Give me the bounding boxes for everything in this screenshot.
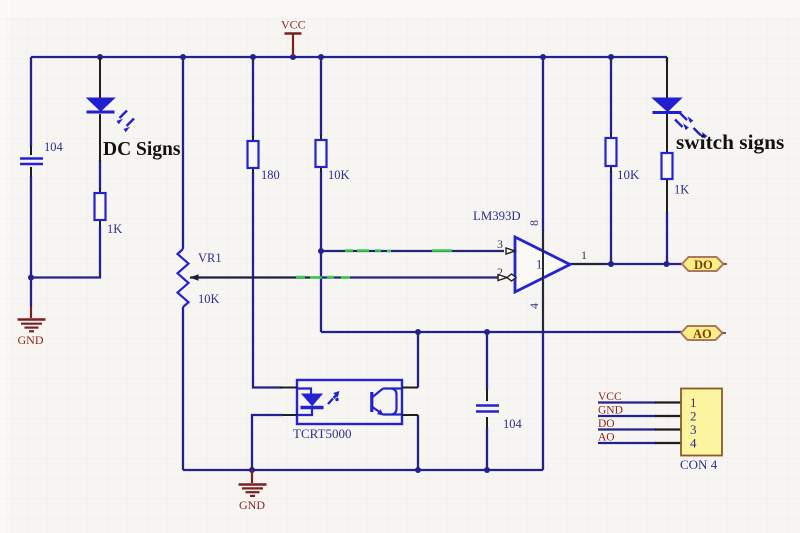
wire: VR1 wiper to comparator pin2 (190, 276, 504, 278)
svg-text:10K: 10K (198, 292, 220, 306)
wire: connector VCC stub (598, 401, 656, 403)
resistor R3 180 stubs (252, 136, 254, 173)
wire: right 104 cap column (486, 332, 488, 470)
wire: TCRT collector up to AO rail (417, 332, 419, 388)
LED D1 (DC) pins (99, 57, 101, 162)
svg-text:10K: 10K (617, 167, 640, 182)
ground symbol GND (bottom) (239, 470, 267, 496)
capacitor C2 104 (right) plates (476, 406, 499, 412)
junction at ground rail / 104 cap (484, 467, 490, 473)
wire: left 1K bottom to ground rail (31, 226, 100, 278)
svg-text:4: 4 (690, 436, 697, 451)
wire: right 10K pull-up column (610, 57, 612, 264)
resistor R4 10K (mid) stubs (320, 135, 322, 172)
LED D2 (switch) body (653, 98, 682, 113)
svg-text:1: 1 (581, 248, 587, 262)
LED D1 (DC) body (87, 98, 115, 112)
svg-text:1K: 1K (107, 222, 122, 236)
junction at left ground node (28, 275, 34, 281)
wire: comparator power column pin8/pin4 (542, 57, 544, 470)
wire: left cap column (30, 57, 32, 307)
resistor R3 180 body (248, 141, 259, 168)
resistor R5 10K (right) stubs (610, 133, 612, 172)
junction at VCC rail / mid 10K (318, 54, 324, 60)
svg-text:8: 8 (527, 220, 541, 226)
op-amp pin 8 stub through triangle (542, 232, 544, 330)
junction at AO rail / TCRT collector (415, 329, 421, 335)
green ERC marks on pin3 wire (345, 249, 452, 252)
wire: pin3 net from 10K column to comparator (321, 250, 504, 252)
LED D1 light arrows (117, 111, 135, 133)
port flag AO (681, 326, 723, 340)
junction at VCC rail / VCC symbol (290, 54, 296, 60)
wire: AO net rail (321, 331, 682, 333)
TCRT internal phototransistor (372, 389, 402, 415)
wire: TCRT cathode to ground rail (252, 415, 283, 470)
junction at DO net / right 10K (608, 261, 614, 267)
op-amp pin3 input arrow (506, 248, 515, 254)
op-amp pin2 input arrow and diamond (498, 274, 516, 281)
power symbol VCC (285, 34, 302, 57)
junction at DO net / LED 1K branch (664, 261, 670, 267)
port flag DO (682, 257, 724, 271)
svg-text:LM393D: LM393D (473, 209, 521, 223)
junction at ground rail / TCRT cathode GND (249, 467, 255, 473)
wire: switch LED column blue part (666, 57, 668, 264)
junction at VCC rail / DC LED (97, 54, 103, 60)
resistor R5 10K (right) body (606, 138, 617, 166)
svg-text:DC Signs: DC Signs (103, 139, 181, 160)
resistor R6 1K (right) body (662, 153, 673, 179)
connector J1 CON4 body (681, 389, 722, 456)
svg-text:VCC: VCC (598, 391, 622, 403)
TCRT left pins (280, 388, 297, 416)
junction at VCC rail / VR1 (180, 54, 186, 60)
connector J1 CON4 pin stubs (655, 403, 681, 444)
svg-text:AO: AO (693, 327, 712, 341)
wire: connector DO stub (598, 428, 656, 430)
svg-text:CON 4: CON 4 (680, 457, 718, 472)
capacitor C2 104 (right) stubs (486, 389, 488, 428)
wire: bottom ground rail (183, 469, 543, 471)
potentiometer VR1 zigzag (178, 249, 189, 307)
svg-text:104: 104 (503, 417, 523, 431)
svg-text:1: 1 (536, 258, 542, 272)
TCRT internal emission arrow (328, 391, 340, 404)
resistor R4 10K (mid) body (316, 140, 327, 167)
svg-text:VCC: VCC (281, 18, 306, 32)
optocoupler U2 TCRT5000 box (297, 380, 402, 424)
wire: mid 10K column and down to AO corner (320, 57, 322, 332)
wire: VR1 column (182, 57, 184, 470)
svg-text:GND: GND (18, 333, 44, 347)
resistor R2 1K (left) body (95, 193, 106, 220)
junction at VCC rail / 180 (250, 54, 256, 60)
svg-text:2: 2 (497, 265, 503, 279)
resistor R2 1K (left) stubs (99, 188, 101, 226)
svg-text:GND: GND (598, 405, 623, 417)
svg-text:switch signs: switch signs (676, 130, 784, 154)
wire: 180 resistor column down to TCRT anode (253, 57, 282, 388)
wire: connector AO stub (598, 442, 656, 444)
junction at AO rail / 104 cap (484, 329, 490, 335)
wire: DC LED column blue parts (99, 160, 101, 190)
capacitor C1 104 (left) pins (30, 146, 32, 177)
wire: DO output net (570, 263, 684, 265)
svg-text:4: 4 (527, 303, 541, 309)
wire: connector GND stub (598, 415, 656, 417)
svg-text:GND: GND (239, 498, 265, 512)
svg-text:VR1: VR1 (198, 251, 222, 265)
ground symbol GND (left) (18, 307, 46, 331)
LED D2 light arrows (675, 113, 707, 139)
svg-text:DO: DO (598, 418, 615, 430)
svg-text:AO: AO (598, 432, 615, 444)
potentiometer VR1 wiper arrow (190, 274, 199, 280)
svg-text:180: 180 (261, 168, 280, 182)
svg-text:10K: 10K (328, 168, 350, 182)
TCRT emitter arrowhead (377, 409, 384, 415)
junction at VCC rail / right 10K (608, 54, 614, 60)
junction at pin3 / 10K column (318, 248, 324, 254)
op-amp U1 LM393D triangle (515, 237, 570, 292)
svg-text:DO: DO (694, 258, 713, 272)
wire: TCRT emitter down to ground rail (417, 415, 419, 470)
port flag DO tail nub (724, 263, 728, 265)
svg-text:104: 104 (44, 140, 64, 154)
svg-text:3: 3 (497, 237, 503, 251)
wire: VCC top rail (31, 56, 667, 58)
green ERC marks on pin2 wire (296, 276, 350, 279)
TCRT right pins (402, 388, 418, 416)
port flag AO tail nub (723, 332, 727, 334)
svg-text:1K: 1K (674, 183, 689, 197)
capacitor C1 104 (left) plates (20, 159, 43, 165)
junction at VCC rail / pin8 (540, 54, 546, 60)
LED D2 (switch) pins (666, 58, 668, 213)
svg-text:TCRT5000: TCRT5000 (293, 426, 351, 441)
TCRT internal LED (297, 389, 324, 416)
junction at ground rail / TCRT emitter (415, 467, 421, 473)
